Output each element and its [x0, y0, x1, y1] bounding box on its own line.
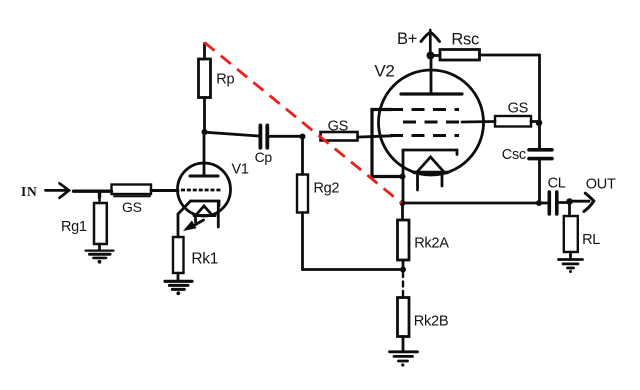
svg-text:Cp: Cp: [255, 149, 273, 165]
svg-text:Rk2A: Rk2A: [414, 235, 449, 251]
svg-text:Rk1: Rk1: [191, 251, 218, 268]
svg-text:Csc: Csc: [502, 147, 526, 163]
svg-text:Rp: Rp: [216, 72, 234, 88]
svg-text:Rg1: Rg1: [61, 219, 87, 235]
svg-text:V2: V2: [374, 62, 394, 81]
svg-text:OUT: OUT: [586, 177, 616, 193]
svg-text:GS: GS: [508, 100, 528, 116]
svg-text:V1: V1: [232, 162, 249, 178]
svg-text:RL: RL: [582, 232, 600, 248]
svg-text:B+: B+: [397, 30, 417, 48]
svg-text:Rsc: Rsc: [451, 31, 479, 49]
svg-text:Rg2: Rg2: [314, 181, 340, 197]
svg-text:GS: GS: [328, 119, 348, 135]
svg-text:CL: CL: [548, 176, 566, 192]
svg-text:GS: GS: [122, 199, 142, 215]
svg-text:Rk2B: Rk2B: [414, 313, 449, 329]
svg-text:IN: IN: [21, 184, 38, 199]
